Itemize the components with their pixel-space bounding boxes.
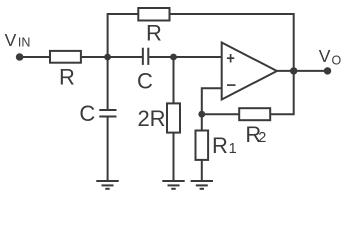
svg-text:O: O [332, 53, 342, 67]
svg-text:R: R [146, 21, 162, 46]
svg-text:2R: 2R [137, 106, 165, 131]
svg-text:C: C [79, 101, 95, 126]
svg-text:2: 2 [258, 130, 266, 146]
svg-text:V: V [5, 30, 17, 50]
svg-text:C: C [137, 69, 153, 94]
svg-text:IN: IN [18, 36, 31, 50]
svg-text:V: V [319, 46, 331, 66]
svg-text:R: R [212, 133, 228, 158]
svg-text:R: R [59, 65, 75, 90]
svg-text:1: 1 [229, 141, 237, 157]
